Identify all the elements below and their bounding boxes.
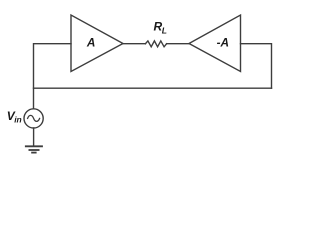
svg-text:-A: -A — [217, 36, 229, 50]
op-amp U2 (-A) — [189, 15, 241, 72]
voltage source V_in — [24, 109, 43, 128]
svg-text:A: A — [86, 35, 96, 49]
wire: bottom rail — [34, 87, 272, 89]
svg-text:in: in — [14, 115, 22, 125]
resistor R_L — [145, 20, 167, 47]
ground — [26, 146, 42, 152]
wire: source to ground — [33, 128, 35, 146]
wire: amp A output to resistor — [123, 43, 145, 45]
wire: input from source node to amp A — [34, 44, 72, 109]
wire: amp -A output loop to bottom rail — [241, 44, 272, 88]
label V_in — [7, 109, 22, 125]
op-amp U1 (A) — [71, 15, 123, 72]
svg-text:L: L — [162, 26, 167, 36]
wire: resistor to amp -A — [167, 43, 189, 45]
